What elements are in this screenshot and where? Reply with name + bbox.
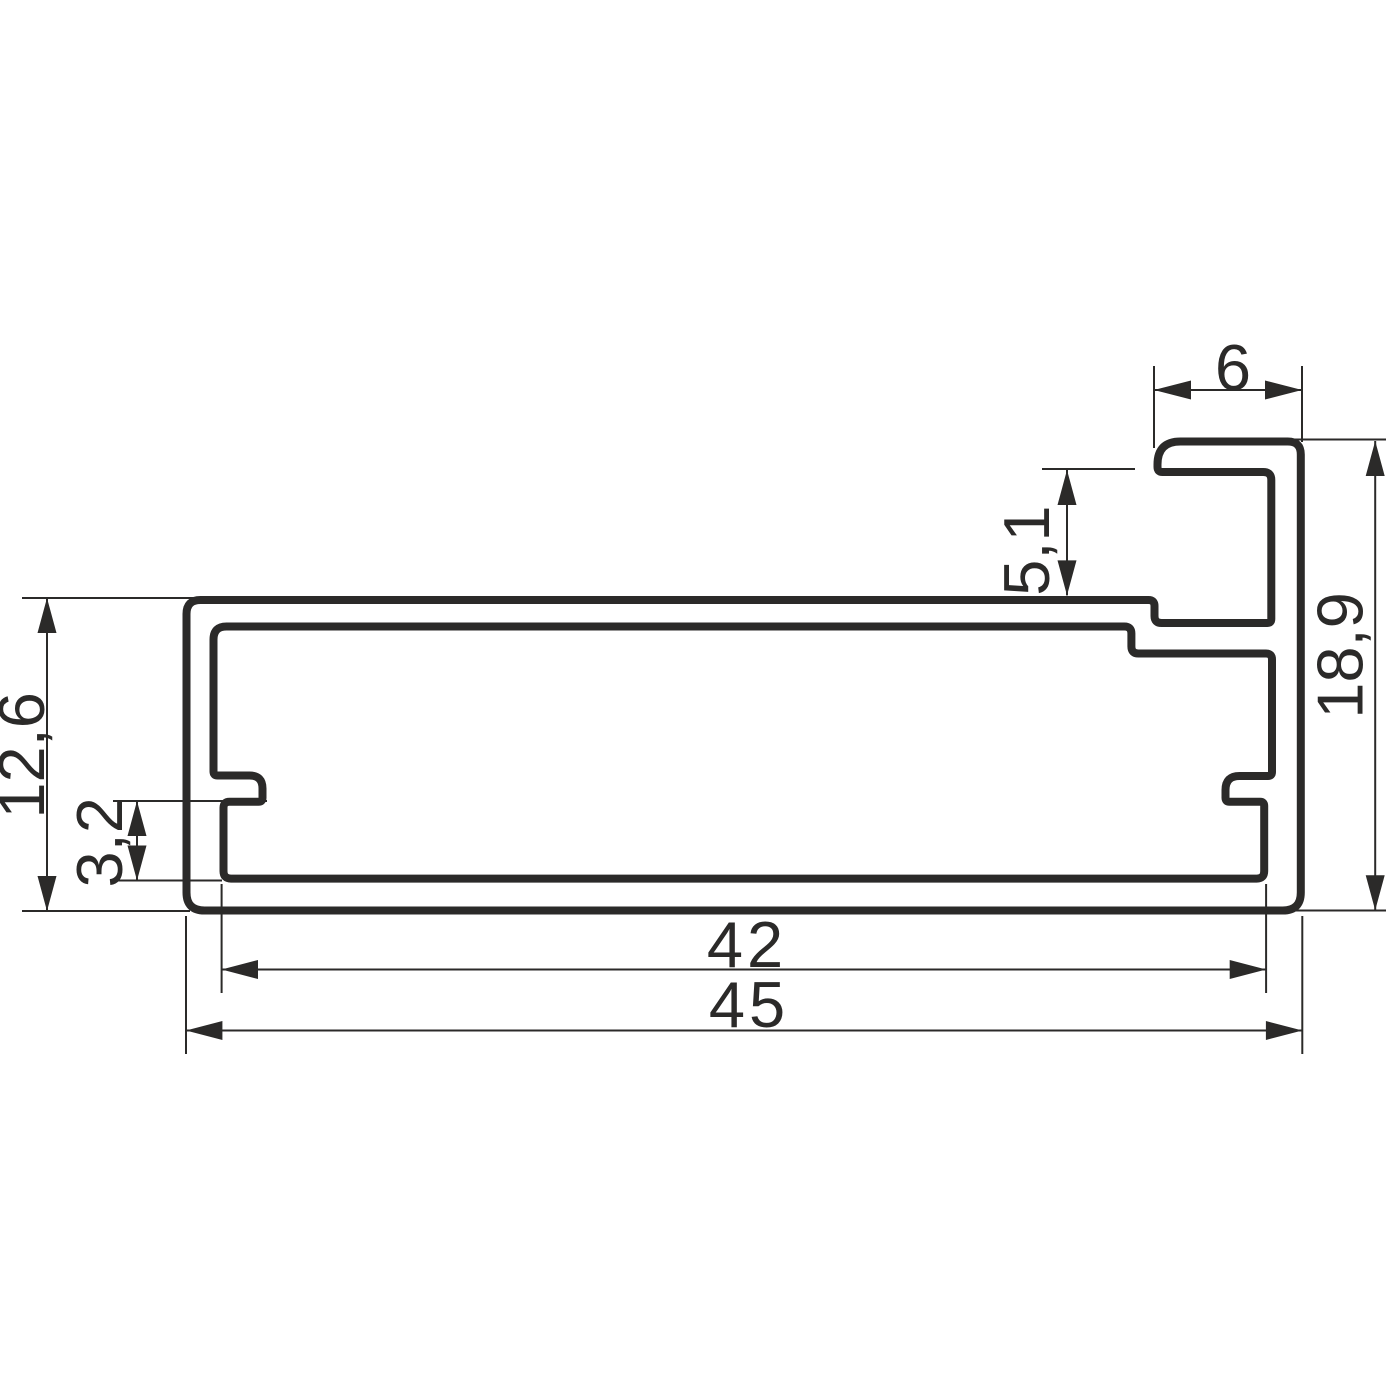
dimension 12,6 (left) — [22, 598, 200, 911]
profile outer contour — [187, 442, 1301, 911]
dimension 6 (top) — [1154, 366, 1302, 448]
svg-text:12,6: 12,6 — [0, 692, 58, 819]
profile inner cavity contour — [214, 627, 1273, 879]
svg-text:18,9: 18,9 — [1304, 592, 1377, 719]
svg-text:6: 6 — [1215, 331, 1251, 404]
dimension 3,2 — [113, 801, 267, 881]
svg-text:5,1: 5,1 — [990, 505, 1063, 595]
svg-text:45: 45 — [709, 968, 789, 1041]
dimension 18,9 (right) — [1265, 440, 1386, 911]
dimension 45 — [186, 916, 1302, 1054]
dimension 5,1 — [1042, 469, 1135, 595]
dimension 42 — [222, 884, 1267, 993]
svg-text:3,2: 3,2 — [63, 797, 136, 887]
